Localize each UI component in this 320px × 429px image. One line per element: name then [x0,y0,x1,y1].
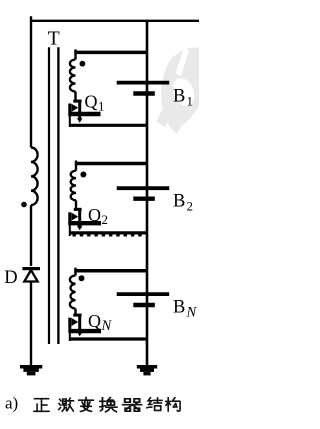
svg-text:T: T [48,28,60,49]
svg-text:Q: Q [88,205,101,225]
svg-text:2: 2 [187,199,194,214]
svg-text:N: N [101,318,113,334]
svg-text:a): a) [5,394,18,413]
svg-text:Q: Q [88,311,101,331]
svg-text:Q: Q [85,92,98,112]
svg-text:N: N [186,304,198,320]
svg-text:2: 2 [102,212,109,227]
svg-text:D: D [4,268,17,288]
svg-text:1: 1 [187,93,194,108]
svg-text:B: B [173,86,185,106]
svg-text:1: 1 [98,99,105,114]
svg-text:B: B [173,297,185,317]
svg-text:B: B [173,192,185,212]
